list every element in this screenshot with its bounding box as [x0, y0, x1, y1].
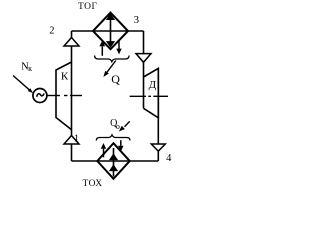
svg-text:4: 4: [166, 153, 172, 164]
svg-text:2: 2: [49, 25, 54, 36]
svg-text:Q: Q: [111, 72, 120, 86]
svg-text:к: к: [28, 64, 32, 73]
svg-text:ТОГ: ТОГ: [78, 2, 98, 12]
svg-text:о: о: [116, 122, 120, 131]
svg-text:Д: Д: [149, 79, 157, 91]
svg-text:К: К: [61, 71, 69, 83]
svg-text:1: 1: [74, 133, 79, 144]
svg-text:3: 3: [134, 15, 139, 26]
svg-text:ТОХ: ТОХ: [83, 179, 103, 189]
